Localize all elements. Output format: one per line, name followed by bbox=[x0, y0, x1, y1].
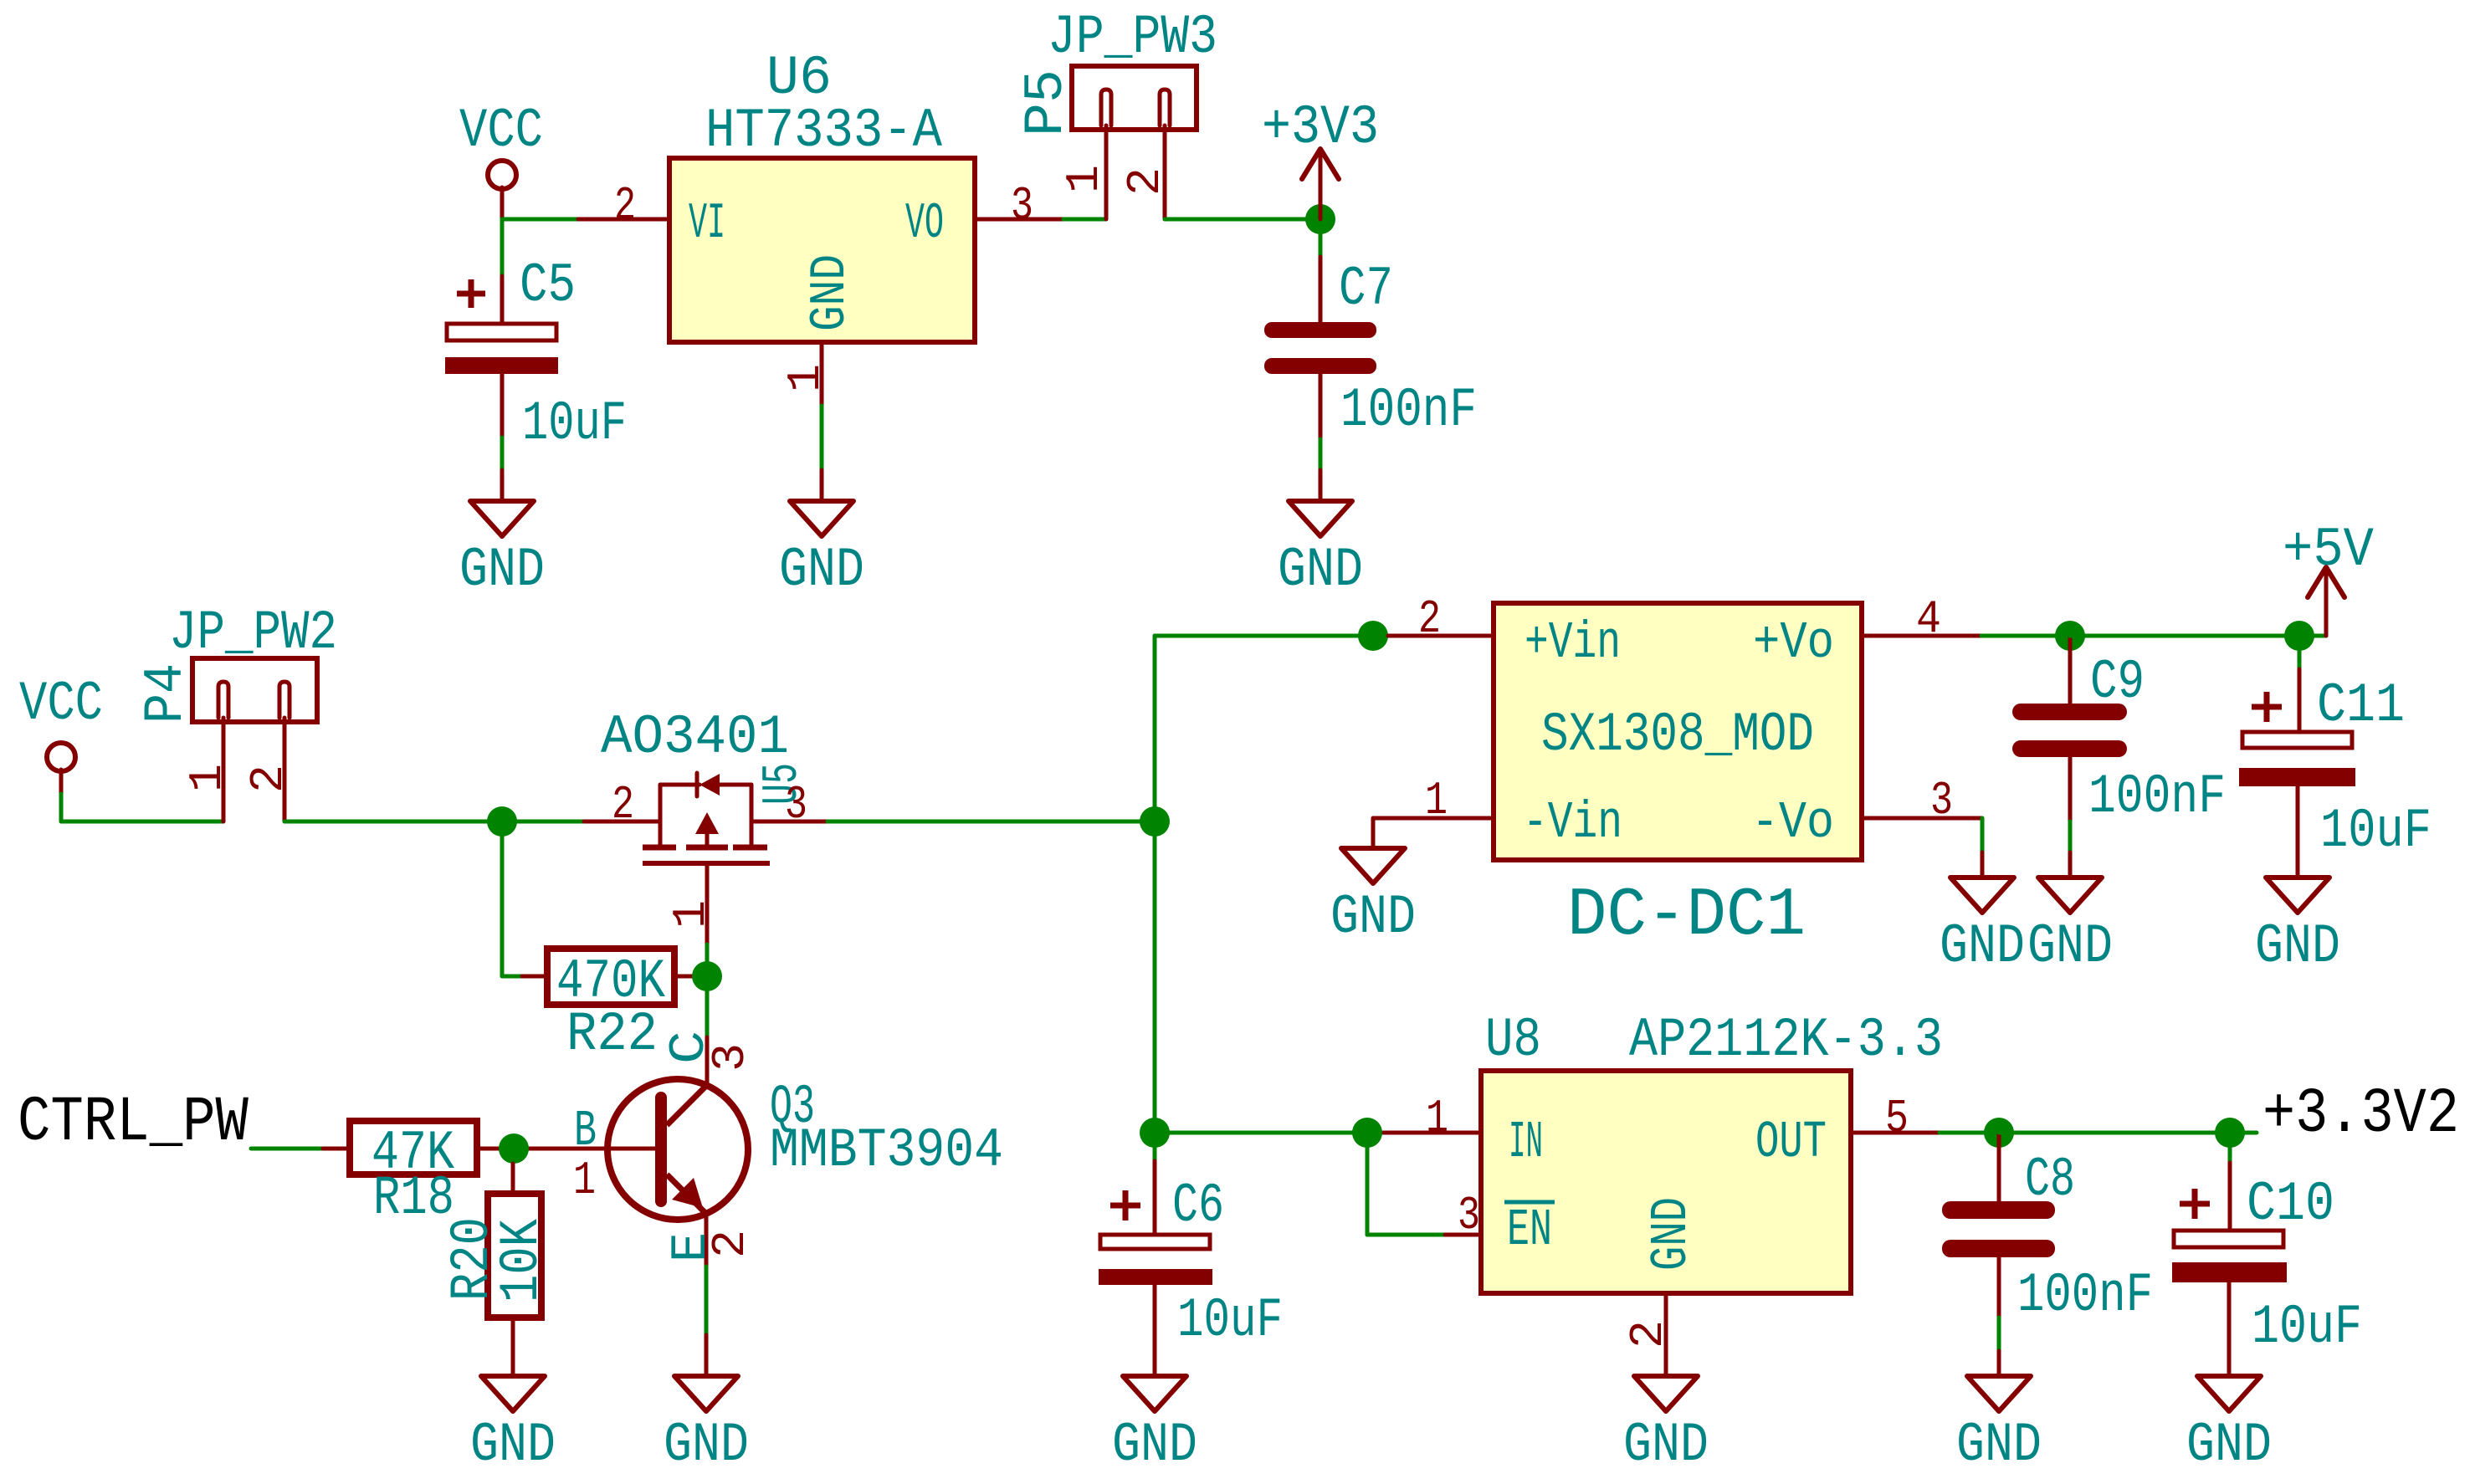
wire to +3.3V2 label bbox=[2230, 1131, 2257, 1135]
svg-text:C10: C10 bbox=[2247, 1173, 2334, 1236]
DC-DC module DC-DC1 SX1308_MOD bbox=[1494, 603, 1862, 954]
capacitor C6 10uF (polarized) bbox=[1099, 1148, 1283, 1376]
wire +3V3 node to C7 bbox=[1319, 234, 1323, 257]
resistor R18 47K bbox=[323, 1121, 514, 1230]
resistor R22 470K bbox=[522, 949, 707, 1066]
pin 1 (IN) bbox=[1384, 1131, 1481, 1135]
svg-text:100nF: 100nF bbox=[1340, 379, 1477, 442]
wire Q3 emitter to GND bbox=[705, 1267, 709, 1335]
svg-text:2: 2 bbox=[704, 1230, 757, 1258]
svg-text:100nF: 100nF bbox=[2017, 1264, 2153, 1327]
gate plate bbox=[643, 861, 770, 866]
wire OUT to C8 node bbox=[1940, 1131, 1999, 1135]
regulator U8 AP2112K-3.3 bbox=[1481, 1009, 1943, 1293]
wire U5 drain to the right bbox=[828, 820, 1155, 824]
pin 3 (drain) bbox=[751, 820, 828, 824]
svg-text:10uF: 10uF bbox=[2252, 1296, 2362, 1359]
wire JP_PW3 pin2 to +3V3 node bbox=[1165, 217, 1320, 222]
channel bars bbox=[643, 845, 676, 851]
pin 3 (-Vo) bbox=[1862, 816, 1982, 821]
svg-text:1: 1 bbox=[1425, 774, 1448, 827]
ground (C5) bbox=[459, 501, 545, 601]
stub bbox=[1997, 1351, 2001, 1376]
pin 5 (OUT) bbox=[1851, 1131, 1940, 1135]
junction R22/gate/collector bbox=[692, 961, 722, 991]
wire drain node up to +Vin row bbox=[1153, 636, 1157, 821]
junction EN tap bbox=[1352, 1118, 1382, 1148]
wire U6 pin1 to GND bbox=[820, 406, 824, 470]
pin 3 (EN) bbox=[1445, 1233, 1481, 1237]
svg-text:10uF: 10uF bbox=[2320, 800, 2432, 862]
ground (-Vo) bbox=[1940, 878, 2025, 978]
right vertical bbox=[750, 785, 754, 847]
svg-text:OUT: OUT bbox=[1755, 1113, 1827, 1172]
jumper JP_PW3 (P5) bbox=[1015, 6, 1217, 219]
power symbol VCC (top) bbox=[459, 100, 543, 219]
U6 pin 1 (GND) bbox=[820, 342, 824, 406]
wire U5 gate down to R22 node bbox=[705, 944, 710, 976]
svg-text:JP_PW3: JP_PW3 bbox=[1048, 6, 1217, 69]
svg-text:3: 3 bbox=[785, 778, 807, 832]
svg-text:-Vin: -Vin bbox=[1523, 793, 1622, 852]
resistor R20 10K (vertical) bbox=[441, 1164, 553, 1376]
svg-text:DC-DC1: DC-DC1 bbox=[1567, 877, 1806, 954]
stub bbox=[1981, 852, 1985, 878]
wire C7 to GND bbox=[1319, 439, 1323, 470]
svg-text:1: 1 bbox=[1058, 165, 1111, 193]
svg-text:HT7333-A: HT7333-A bbox=[705, 100, 942, 162]
svg-text:+3V3: +3V3 bbox=[1262, 96, 1379, 159]
capacitor C5 10uF (polarized) bbox=[445, 254, 627, 455]
ground (U8) bbox=[1623, 1376, 1709, 1476]
stub bbox=[1319, 470, 1323, 501]
ground (-Vin) bbox=[1330, 848, 1416, 949]
junction C6 bbox=[1140, 1118, 1170, 1148]
pin 1 (-Vin) bbox=[1373, 816, 1494, 821]
collector pin 3 bbox=[705, 1037, 710, 1085]
wire VO to JP_PW3 pin1 bbox=[1063, 217, 1106, 222]
wire C9 node to C11 node bbox=[2070, 634, 2299, 638]
capacitor C7 100nF bbox=[1264, 257, 1477, 442]
svg-text:GND: GND bbox=[802, 254, 859, 331]
svg-text:JP_PW2: JP_PW2 bbox=[169, 601, 337, 664]
svg-text:CTRL_PW: CTRL_PW bbox=[18, 1087, 249, 1159]
svg-text:C6: C6 bbox=[1172, 1174, 1224, 1237]
wire C6 node to U8 bbox=[1155, 1131, 1384, 1135]
svg-text:-Vo: -Vo bbox=[1751, 793, 1834, 852]
wire C8 to GND bbox=[1997, 1318, 2001, 1351]
svg-text:2: 2 bbox=[614, 179, 636, 233]
svg-text:2: 2 bbox=[612, 778, 634, 832]
svg-text:GND: GND bbox=[1642, 1197, 1701, 1271]
wire C9 to GND bbox=[2068, 821, 2073, 852]
base bar bbox=[655, 1098, 667, 1201]
P-MOSFET U5 AO3401 bbox=[584, 706, 828, 944]
wire VCC down bbox=[59, 794, 64, 821]
svg-text:1: 1 bbox=[1426, 1092, 1448, 1145]
pin 2 (+Vin) bbox=[1388, 634, 1494, 638]
junction +Vin bbox=[1358, 621, 1388, 651]
power symbol +3V3 bbox=[1262, 96, 1379, 219]
capacitor C9 100nF bbox=[2012, 636, 2226, 828]
wire to +Vin junction bbox=[1155, 634, 1388, 638]
svg-text:AP2112K-3.3: AP2112K-3.3 bbox=[1629, 1009, 1943, 1072]
stub bbox=[2068, 852, 2073, 878]
svg-text:+Vin: +Vin bbox=[1525, 613, 1621, 673]
svg-text:VI: VI bbox=[689, 196, 725, 253]
svg-text:1: 1 bbox=[573, 1154, 596, 1207]
stub bbox=[500, 470, 505, 501]
svg-text:IN: IN bbox=[1509, 1113, 1543, 1172]
junction C8 bbox=[1984, 1118, 2014, 1148]
power symbol +5V bbox=[2283, 519, 2374, 636]
svg-text:3: 3 bbox=[1011, 179, 1033, 233]
svg-text:SX1308_MOD: SX1308_MOD bbox=[1541, 704, 1814, 766]
svg-text:2: 2 bbox=[1119, 167, 1172, 196]
power symbol VCC (middle left) bbox=[19, 673, 103, 794]
svg-text:10uF: 10uF bbox=[1177, 1289, 1283, 1352]
svg-text:C5: C5 bbox=[520, 254, 576, 317]
ground (C7) bbox=[1278, 501, 1363, 601]
wire VCC down to C5 bbox=[500, 219, 505, 276]
jumper JP_PW2 (P4) bbox=[135, 601, 337, 821]
wire VCC to U6 pin 2 bbox=[502, 217, 578, 222]
wire VCC to JP_PW2 pin1 bbox=[61, 820, 223, 824]
junction node (source of U5) bbox=[487, 806, 517, 837]
svg-text:B: B bbox=[574, 1103, 597, 1160]
pin 2 (GND) bbox=[1664, 1293, 1668, 1376]
svg-text:R22: R22 bbox=[566, 1003, 658, 1066]
ground (C9) bbox=[2027, 878, 2113, 978]
stub bbox=[705, 1335, 709, 1376]
svg-text:C7: C7 bbox=[1339, 258, 1393, 320]
substrate arrow bbox=[705, 832, 710, 847]
wire drain node down to C6 node bbox=[1153, 821, 1157, 1133]
wire node to U5 pin 2 bbox=[502, 820, 584, 824]
ground (Q3) bbox=[664, 1376, 749, 1476]
svg-text:AO3401: AO3401 bbox=[601, 706, 789, 769]
body: left vertical bbox=[658, 785, 663, 847]
wire node down to R22 bbox=[500, 821, 505, 976]
junction node +3V3 bbox=[1305, 204, 1335, 234]
ground (R20) bbox=[470, 1376, 556, 1476]
svg-text:C11: C11 bbox=[2317, 674, 2405, 737]
wire C8 node to C10 node bbox=[1999, 1131, 2230, 1135]
wire +Vo to C9 node bbox=[1981, 634, 2070, 638]
svg-text:10uF: 10uF bbox=[522, 392, 627, 455]
svg-text:2: 2 bbox=[1622, 1320, 1675, 1348]
ground (C10) bbox=[2186, 1376, 2272, 1476]
svg-text:2: 2 bbox=[242, 765, 295, 793]
svg-text:+3.3V2: +3.3V2 bbox=[2262, 1078, 2459, 1150]
ground (C6) bbox=[1112, 1376, 1197, 1476]
stub bbox=[820, 470, 824, 501]
wire node down to Q3 collector bbox=[705, 991, 710, 1037]
junction C10 bbox=[2215, 1118, 2245, 1148]
svg-text:P4: P4 bbox=[135, 663, 197, 724]
ground (C11) bbox=[2255, 878, 2340, 978]
base pin 1 bbox=[514, 1147, 655, 1151]
svg-text:2: 2 bbox=[1418, 592, 1441, 646]
svg-text:U8: U8 bbox=[1485, 1009, 1541, 1072]
capacitor C10 10uF (polarized) bbox=[2172, 1148, 2362, 1376]
wire JP_PW2 pin2 to node bbox=[284, 820, 502, 824]
svg-text:MMBT3904: MMBT3904 bbox=[770, 1119, 1003, 1182]
U6 pin 2 (VI) bbox=[578, 217, 669, 222]
svg-text:1: 1 bbox=[181, 764, 234, 792]
svg-text:VO: VO bbox=[905, 196, 944, 253]
capacitor C8 100nF bbox=[1942, 1133, 2153, 1327]
regulator U6 HT7333-A bbox=[669, 47, 975, 342]
svg-text:+Vo: +Vo bbox=[1753, 613, 1834, 673]
junction C11 bbox=[2284, 621, 2314, 651]
NPN transistor Q3 MMBT3904 bbox=[514, 1031, 1003, 1267]
emitter with arrow bbox=[667, 1174, 706, 1214]
U6 pin 3 (VO) bbox=[975, 217, 1063, 222]
wire CTRL_PW to R18 bbox=[251, 1147, 323, 1151]
wire C5 to GND bbox=[500, 438, 505, 470]
svg-text:4: 4 bbox=[1916, 592, 1941, 646]
svg-text:5: 5 bbox=[1885, 1092, 1909, 1145]
svg-text:R20: R20 bbox=[441, 1217, 504, 1301]
capacitor C11 10uF (polarized) bbox=[2239, 651, 2432, 878]
top rail with body diode bbox=[660, 783, 699, 787]
junction drain node bbox=[1140, 806, 1170, 837]
svg-text:1: 1 bbox=[664, 900, 718, 929]
junction C9 bbox=[2055, 621, 2085, 651]
svg-text:VCC: VCC bbox=[459, 100, 543, 162]
wire EN tap down and right bbox=[1366, 1133, 1370, 1235]
svg-text:3: 3 bbox=[1458, 1189, 1480, 1242]
svg-text:+5V: +5V bbox=[2283, 519, 2374, 581]
wire to +5V bbox=[2299, 634, 2326, 638]
svg-text:1: 1 bbox=[779, 364, 833, 392]
ground (C8) bbox=[1956, 1376, 2042, 1476]
wire -Vo down bbox=[1981, 818, 1985, 852]
svg-text:3: 3 bbox=[704, 1043, 757, 1072]
pin 1 (gate) bbox=[705, 863, 710, 944]
svg-text:3: 3 bbox=[1930, 774, 1953, 827]
svg-text:P5: P5 bbox=[1015, 69, 1078, 136]
ground (U6) bbox=[779, 501, 864, 601]
pin 4 (+Vo) bbox=[1862, 634, 1981, 638]
svg-text:100nF: 100nF bbox=[2088, 765, 2226, 828]
svg-text:VCC: VCC bbox=[19, 673, 103, 735]
svg-text:EN: EN bbox=[1507, 1200, 1552, 1260]
wire to R22 left pin bbox=[502, 975, 522, 979]
pin 2 (source) bbox=[584, 820, 660, 824]
junction R18/R20/Q3 base bbox=[499, 1133, 529, 1164]
